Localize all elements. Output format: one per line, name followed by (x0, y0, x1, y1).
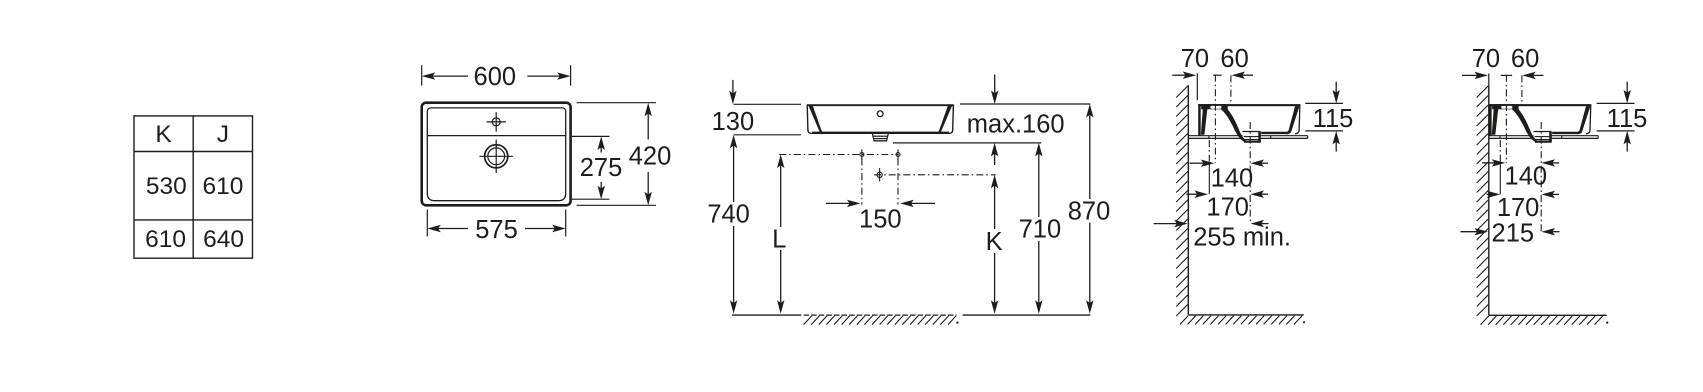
svg-text:600: 600 (474, 63, 517, 91)
svg-text:60: 60 (1220, 45, 1248, 73)
section bowl s-curve wall (1221, 109, 1245, 142)
svg-text:K: K (155, 121, 172, 148)
view4 tap axis centerline (1505, 75, 1507, 163)
dim K (991, 175, 998, 189)
section drain box (1533, 131, 1551, 133)
view3 dim 70/60 (1183, 72, 1197, 79)
svg-text:530: 530 (146, 173, 187, 200)
front view basin bottom edge (812, 132, 949, 134)
section deck thick part (1201, 104, 1228, 109)
section tap hole slot (1501, 106, 1512, 109)
dim 740 (730, 135, 737, 149)
drain bottom extension (893, 142, 1041, 144)
view3 dim 140 (1201, 160, 1215, 167)
dim 150 extension dashes (861, 159, 863, 205)
view4 fixing axis (1499, 140, 1501, 163)
dim 150 (847, 200, 861, 207)
section pedestal left wall (1492, 109, 1499, 135)
section drain ribs (1535, 136, 1550, 138)
floor hatching front view (804, 316, 957, 325)
view4 wall face extension (1488, 74, 1490, 86)
view3 floor line (1188, 314, 1303, 316)
section basin top deck (1489, 104, 1591, 106)
top view drain crosshair (480, 140, 513, 173)
bottom edge extension left (734, 134, 801, 136)
view4 floor line (1489, 314, 1607, 316)
section pedestal left wall (1201, 109, 1208, 135)
section deck thick part (1492, 104, 1519, 109)
tap hole marker left (860, 149, 864, 159)
front view basin right wall (949, 105, 954, 134)
view4 dim 70/60 (1475, 72, 1489, 79)
section back wall (1489, 104, 1492, 136)
svg-text:115: 115 (1313, 105, 1354, 133)
section front wall outer edge (1586, 104, 1591, 133)
view3 countertop (1188, 136, 1307, 139)
view4 floor hatching (1481, 316, 1603, 325)
view4 drain axis centerline (1540, 122, 1542, 232)
view3 wall hatching (1176, 86, 1188, 316)
svg-text:140: 140 (1211, 164, 1254, 192)
svg-text:610: 610 (202, 173, 243, 200)
top edge extension left (734, 103, 801, 105)
svg-text:L: L (772, 226, 786, 254)
top view deck divider line (427, 135, 565, 137)
view3 tap axis centerline (1214, 75, 1216, 163)
dim 420 (577, 102, 656, 104)
view4 dim 140 (1492, 159, 1506, 166)
svg-text:420: 420 (629, 142, 672, 170)
view4 dim 215 (1475, 228, 1489, 235)
svg-text:J: J (217, 121, 229, 148)
svg-text:170: 170 (1497, 194, 1540, 222)
section drain box (1243, 131, 1261, 133)
view3 dim 115 (1305, 102, 1343, 104)
view3 dim 255 min (1174, 220, 1188, 227)
view4 countertop (1489, 136, 1598, 139)
view3 fixing axis (1208, 140, 1210, 163)
svg-text:70: 70 (1181, 45, 1209, 73)
front view drain fitting (872, 134, 888, 141)
section front wall outer edge (1295, 104, 1300, 133)
svg-text:740: 740 (707, 200, 750, 228)
dim 870 (1086, 104, 1093, 118)
svg-text:140: 140 (1505, 162, 1548, 190)
svg-text:150: 150 (859, 205, 902, 233)
front view basin left wall (807, 105, 812, 134)
section front wall inner slant (1286, 106, 1300, 134)
svg-text:170: 170 (1206, 194, 1249, 222)
dim 575 (426, 210, 428, 237)
view4 dim 170 (1487, 191, 1501, 198)
table K/J (134, 116, 253, 258)
svg-text:60: 60 (1511, 45, 1539, 73)
dim 710 (1035, 143, 1042, 157)
dim L (777, 155, 784, 169)
top view basin outer rim (422, 103, 571, 206)
view4 wall hatching (1477, 86, 1489, 316)
view4 secondary axis (1521, 75, 1523, 104)
svg-text:70: 70 (1472, 45, 1500, 73)
svg-text:K: K (986, 228, 1003, 256)
top view basin inner rim (427, 108, 565, 201)
dim 275 (570, 135, 610, 137)
top edge extension right (960, 103, 1091, 105)
floor line front view (732, 314, 801, 316)
svg-text:130: 130 (712, 108, 755, 136)
view3 floor hatching (1180, 316, 1302, 325)
top view tap hole crosshair (487, 112, 506, 131)
section front wall inner slant (1577, 106, 1591, 134)
svg-text:215: 215 (1492, 220, 1535, 248)
dim 130 (729, 91, 736, 105)
svg-text:710: 710 (1019, 216, 1062, 244)
dim max.160 (991, 91, 998, 105)
section back wall (1198, 104, 1201, 136)
tap hole marker right (896, 149, 900, 159)
section drain ribs (1244, 136, 1259, 138)
drain marker (877, 168, 882, 181)
section bowl floor (1261, 132, 1289, 134)
svg-text:870: 870 (1068, 197, 1111, 225)
svg-text:575: 575 (475, 216, 518, 244)
tap holes centerline (779, 154, 898, 156)
svg-text:255 min.: 255 min. (1193, 224, 1291, 252)
view3 secondary axis (1230, 75, 1232, 104)
svg-text:max.160: max.160 (967, 111, 1065, 139)
svg-text:640: 640 (203, 226, 244, 253)
section tap hole slot (1210, 106, 1221, 109)
view3 back edge extension (1196, 73, 1198, 100)
svg-text:275: 275 (580, 154, 623, 182)
svg-text:115: 115 (1607, 105, 1648, 133)
view4 wall line (1488, 85, 1490, 315)
dim 600 (421, 65, 423, 85)
view4 dim 115 (1597, 102, 1635, 104)
svg-text:610: 610 (145, 226, 186, 253)
section basin top deck (1198, 104, 1300, 106)
section bowl s-curve wall (1512, 109, 1536, 142)
front view basin top edge (807, 104, 954, 106)
view3 drain axis centerline (1249, 122, 1251, 224)
view3 wall line (1187, 85, 1189, 315)
drain centerline (874, 174, 996, 176)
view3 dim 170 (1195, 191, 1209, 198)
section bowl floor (1552, 132, 1580, 134)
front view overflow hole (877, 111, 883, 117)
